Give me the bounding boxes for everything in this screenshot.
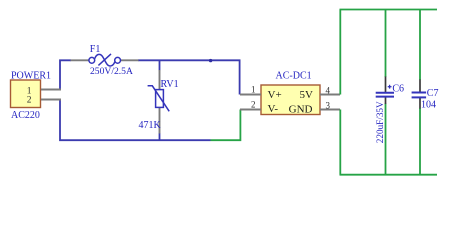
AC-DC1 pin 3 (320, 109, 340, 111)
wire: green vertical from AC-DC1 pin 3 to bottom rail (339, 110, 341, 175)
fuse F1 right pin (121, 59, 139, 61)
AC-DC1 pin 1 (240, 94, 261, 96)
AC-DC1 pin 4 (320, 94, 340, 96)
varistor RV1 body (148, 86, 170, 112)
fuse F1 refdes label (90, 44, 101, 55)
svg-text:471K: 471K (139, 120, 162, 131)
wire: RV1 bottom branch (blue) (159, 133, 161, 140)
fuse F1 left pin (71, 59, 90, 61)
svg-text:V+: V+ (268, 89, 282, 101)
AC-DC1 pin number 1 (251, 84, 256, 94)
AC-DC1 pin number 2 (251, 99, 256, 109)
varistor RV1 value label 471K (139, 120, 162, 131)
svg-text:3: 3 (326, 100, 331, 110)
svg-text:C7: C7 (427, 88, 439, 99)
wire: green vertical from top rail to C7 (419, 10, 421, 81)
svg-text:V-: V- (268, 103, 279, 115)
svg-text:250V/2.5A: 250V/2.5A (90, 66, 133, 77)
POWER1 pin number 2 (27, 96, 32, 106)
POWER1 pin 1 (41, 89, 61, 91)
svg-text:2: 2 (251, 99, 256, 109)
svg-text:1: 1 (251, 84, 256, 94)
capacitor C6 plates (376, 93, 394, 97)
AC-DC1 pin number 4 (326, 85, 331, 95)
capacitor C7 top pin (419, 80, 421, 93)
AC-DC1 module body (261, 85, 320, 115)
wire: POWER1 pin1 to fuse F1 (blue, up and right) (60, 60, 71, 90)
svg-text:GND: GND (289, 103, 313, 115)
capacitor C7 refdes label (427, 88, 439, 99)
wire junction on top net at x=210 (209, 59, 212, 62)
svg-text:220uF/35V: 220uF/35V (375, 101, 385, 143)
svg-text:C6: C6 (392, 83, 404, 94)
AC-DC1 pin number 3 (326, 100, 331, 110)
fuse F1 value label 250V/2.5A (90, 66, 133, 77)
AC-DC1 refdes label (276, 71, 312, 82)
capacitor C6 top pin (385, 77, 387, 93)
wire: green vertical from top rail to C6 (385, 10, 387, 78)
svg-text:POWER1: POWER1 (11, 70, 51, 81)
varistor RV1 refdes label (161, 79, 179, 90)
POWER1 refdes label (11, 70, 51, 81)
capacitor C6 value label 220uF/35V (rotated) (375, 101, 385, 143)
svg-text:RV1: RV1 (161, 79, 179, 90)
varistor RV1 bottom pin (159, 108, 161, 134)
wire: 5V top rail (green) (340, 9, 438, 11)
POWER1 pin 2 (41, 99, 61, 101)
svg-text:4: 4 (326, 85, 331, 95)
wire: bottom green segment to AC-DC1 pin2 (211, 110, 241, 141)
svg-text:F1: F1 (90, 44, 101, 55)
wire: green vertical from C6 to bottom rail (385, 104, 387, 175)
wire: fuse F1 right to AC-DC1 pin1 (blue, right and down) (138, 60, 240, 94)
connector POWER1 body (11, 80, 41, 108)
capacitor C7 plates (412, 93, 427, 98)
wire: GND bottom rail (green) (340, 174, 438, 176)
capacitor C7 bottom pin (419, 98, 421, 109)
capacitor C6 refdes label (392, 83, 404, 94)
wire: RV1 top branch (blue) (159, 60, 161, 70)
POWER1 value label AC220 (11, 110, 40, 121)
varistor RV1 top pin (159, 70, 161, 90)
fuse F1 body (89, 54, 121, 66)
AC-DC1 pin 2 (240, 109, 261, 111)
svg-text:5V: 5V (300, 89, 314, 101)
svg-text:2: 2 (27, 96, 32, 106)
AC-DC1 pin name V- (268, 103, 279, 115)
svg-text:AC-DC1: AC-DC1 (276, 71, 312, 82)
AC-DC1 pin name V+ (268, 89, 282, 101)
POWER1 pin number 1 (27, 86, 32, 96)
capacitor C6 polarity plus sign (388, 85, 392, 89)
capacitor C6 bottom pin (385, 97, 387, 104)
AC-DC1 pin name 5V (300, 89, 314, 101)
wire: POWER1 pin2 down and right along bottom (blue) (60, 100, 211, 141)
capacitor C7 value label 104 (421, 100, 436, 111)
wire: green vertical from top rail to AC-DC1 pin 4 (339, 10, 341, 95)
svg-text:104: 104 (421, 100, 436, 111)
wire: green vertical from C7 to bottom rail (419, 108, 421, 175)
AC-DC1 pin name GND (289, 103, 313, 115)
svg-text:AC220: AC220 (11, 110, 40, 121)
